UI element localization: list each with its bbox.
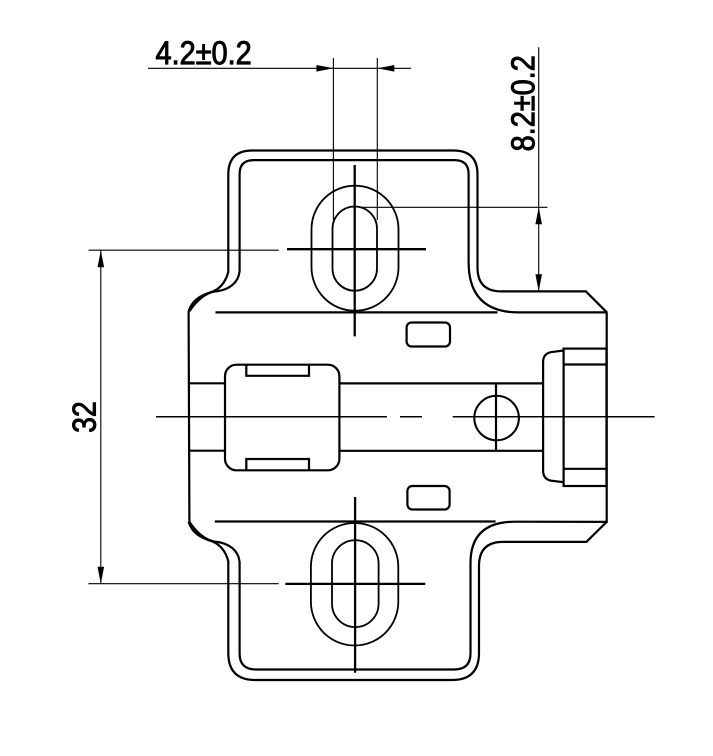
clamp rect lower inner line — [564, 468, 607, 470]
plate upper-surface outline — [189, 151, 607, 670]
main horizontal centerline — [156, 416, 655, 418]
left wing lower edge — [189, 450, 225, 452]
dim 32 extension line bottom — [89, 583, 279, 585]
dim 8.2 extension line — [361, 206, 548, 208]
dim 32 bottom arrowhead — [98, 567, 105, 584]
central boss rounded rect — [225, 365, 339, 471]
bottom slot horizontal centerline — [285, 583, 425, 585]
dim text 4.2±0.2 — [156, 41, 250, 64]
plate inner contour top arm — [189, 160, 606, 312]
top slot inner obround — [333, 207, 378, 291]
clamp D-shape — [543, 351, 564, 483]
right arm lower edge — [339, 450, 543, 452]
dim 4.2 extension line left — [332, 58, 334, 220]
top slot outer obround — [312, 186, 399, 311]
cam circle vertical line — [495, 383, 497, 450]
dim 32 dimension line — [100, 250, 102, 584]
cam circle — [474, 396, 519, 441]
dim 4.2 dimension line — [148, 67, 411, 69]
dim 4.2 extension line right — [376, 58, 378, 220]
plate bottom arm outer contour — [189, 522, 607, 680]
bottom slot inner obround — [332, 540, 379, 627]
right arm upper edge — [339, 382, 543, 384]
dim 8.2 top arrowhead — [535, 207, 542, 224]
top slot vertical centerline — [354, 165, 356, 336]
central boss bottom tab — [246, 459, 309, 470]
top slot horizontal centerline — [287, 248, 426, 250]
clamp rect upper inner line — [564, 363, 607, 365]
bottom slot outer obround — [311, 523, 398, 646]
clamp rectangle — [564, 349, 607, 486]
bottom rectangular hole — [407, 486, 449, 510]
bend line middle band top, left part — [216, 311, 498, 313]
left wing upper edge — [189, 382, 225, 384]
dim 32 extension line top — [89, 249, 279, 251]
bottom slot vertical centerline — [354, 497, 356, 673]
dim 4.2 left arrowhead — [316, 65, 333, 72]
dim text 32 — [72, 403, 95, 432]
dim 4.2 right arrowhead — [377, 65, 394, 72]
central boss top tab — [246, 365, 309, 376]
bend line middle band bottom, left part — [215, 520, 496, 522]
top rectangular hole — [407, 323, 450, 347]
dim text 8.2±0.2 — [511, 57, 534, 150]
dim 8.2 bottom arrowhead — [535, 274, 542, 291]
dim 8.2 dimension line — [538, 47, 540, 291]
dim 32 top arrowhead — [98, 250, 105, 267]
